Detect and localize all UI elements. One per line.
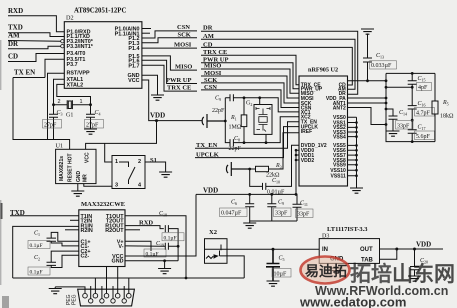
wire R2OUT stub: [125, 229, 140, 231]
wire network bottom rail: [386, 125, 435, 142]
value label 0.033uF: [370, 61, 397, 69]
node ANT2 rail: [385, 123, 388, 126]
svg-text:PEG: PEG: [72, 294, 78, 305]
wire TAB tie: [380, 249, 397, 259]
ground under C4: [84, 129, 97, 134]
wire P1.1/AIN1 stub: [142, 32, 150, 34]
node VDD rail C6: [248, 193, 251, 196]
capacitor C9 crystal: [225, 94, 244, 101]
wire DB9 ground line: [55, 267, 129, 294]
svg-text:VDD: VDD: [150, 112, 165, 120]
connector X2 internals: [205, 245, 228, 259]
crystal G1: [67, 100, 72, 109]
wire P1.7 to TRX_CE: [142, 65, 197, 91]
svg-text:27pF: 27pF: [44, 122, 57, 128]
wire junction down to GND line: [177, 246, 179, 260]
wire network top rail: [386, 72, 435, 74]
capacitor C3: [49, 105, 58, 140]
capacitor C17: [408, 120, 417, 141]
value label 10uF: [272, 269, 291, 278]
wire DB9 lower pin stubs: [91, 286, 125, 299]
node C16 C17: [411, 119, 414, 122]
capacitor C8 crystal: [230, 139, 266, 146]
svg-text:拓培: 拓培: [350, 262, 392, 286]
value label 33pF: [274, 208, 292, 217]
svg-text:MOSI: MOSI: [174, 42, 192, 49]
svg-text:VDD2: VDD2: [301, 158, 315, 164]
wire crystal top line: [244, 98, 299, 112]
svg-text:P3.3/INT1*: P3.3/INT1*: [67, 44, 94, 50]
wire D3 OUT to VDD: [380, 248, 444, 250]
svg-text:X2: X2: [209, 229, 217, 236]
node crystal left: [52, 103, 55, 106]
svg-text:易迪拓: 易迪拓: [305, 263, 347, 279]
svg-text:PWR UP: PWR UP: [166, 77, 191, 84]
ground at DB9: [54, 287, 56, 289]
value label 0.1uF: [28, 267, 50, 275]
node crystal ground rail: [224, 120, 227, 123]
wire CD to P3.4: [8, 54, 64, 62]
wire reset line to U1: [48, 140, 70, 150]
wire V+ stub: [125, 241, 151, 251]
svg-text:SCK: SCK: [178, 31, 191, 38]
node GND ground: [163, 259, 166, 262]
svg-text:C9: C9: [215, 96, 221, 103]
svg-text:OUT: OUT: [360, 247, 373, 253]
svg-text:MAX6821s: MAX6821s: [59, 156, 65, 181]
wire UPCLK from U2: [195, 127, 299, 158]
wire DR to P3.3: [8, 46, 61, 49]
wire X2 lower pin: [227, 256, 244, 278]
svg-text:MISO: MISO: [175, 64, 192, 71]
wire P1.3 to SCK: [142, 38, 197, 43]
svg-text:P3.7: P3.7: [67, 62, 78, 68]
node VDD1: [295, 154, 298, 157]
svg-text:AM: AM: [8, 32, 20, 40]
wire T1OUT to DB9: [125, 216, 186, 278]
wire U1 MR to S1 pin3: [84, 184, 112, 187]
wire TXD to T1IN: [10, 215, 79, 217]
svg-text:4.7pF: 4.7pF: [416, 111, 431, 117]
svg-text:R5: R5: [442, 100, 449, 107]
node C5: [272, 248, 275, 251]
wire C15 C16 link to rail: [386, 86, 412, 88]
resistor R1: [243, 98, 245, 143]
polarized capacitor near XC1: [202, 114, 225, 128]
svg-text:10µF: 10µF: [274, 272, 287, 278]
svg-text:0.033µF: 0.033µF: [371, 63, 392, 69]
svg-text:C2: C2: [34, 255, 40, 262]
node VDD rail riser: [295, 193, 298, 196]
node R1 bottom: [243, 141, 246, 144]
wire CD to U2: [201, 47, 352, 85]
wire MISO to U2: [201, 69, 299, 93]
wire D2 GND to ground: [142, 75, 158, 95]
node rail top: [385, 79, 388, 82]
svg-text:DR: DR: [203, 25, 213, 32]
node crystal right: [89, 103, 92, 106]
svg-text:C6: C6: [231, 200, 237, 207]
svg-text:33pF: 33pF: [275, 211, 288, 217]
svg-text:www.edatop.com: www.edatop.com: [299, 295, 406, 308]
svg-text:C10: C10: [272, 178, 280, 185]
ground under C5: [267, 281, 280, 286]
svg-text:C1: C1: [34, 231, 40, 238]
wire X2 to D3 IN: [221, 248, 319, 250]
svg-text:33pF: 33pF: [297, 212, 310, 218]
wire VDD node right to cap: [157, 120, 203, 122]
node C13: [366, 79, 369, 82]
wire DB9 bus: [13, 277, 245, 279]
svg-text:C18: C18: [159, 211, 167, 218]
wire ANT1 to rail: [348, 102, 387, 104]
node G2 top: [258, 96, 261, 99]
capacitor C2: [47, 251, 79, 267]
wire VDD rail: [196, 194, 297, 204]
svg-text:P1.7: P1.7: [128, 63, 139, 69]
wire U1 VCC up to VDD rail: [86, 143, 157, 162]
value label 5.6pF: [415, 131, 435, 140]
wire R1OUT RXD: [125, 226, 164, 229]
svg-text:XTAL2: XTAL2: [67, 82, 84, 88]
svg-text:C5: C5: [279, 256, 285, 263]
wire antenna rail: [385, 73, 387, 141]
value label 27pF: [85, 120, 104, 129]
svg-text:0.1µF: 0.1µF: [164, 235, 177, 241]
wire P1.6 to PWR_UP: [142, 60, 197, 83]
svg-text:RST/VPP: RST/VPP: [67, 71, 90, 77]
svg-text:RXD: RXD: [139, 219, 153, 226]
svg-text:C16: C16: [418, 101, 426, 108]
node C17 bottom: [411, 140, 414, 143]
wire VSS bus: [348, 117, 357, 188]
value label 33pF: [296, 209, 314, 218]
capacitor C5 electrolytic: [266, 249, 280, 281]
node C20: [413, 248, 416, 251]
svg-text:VDD: VDD: [203, 187, 218, 195]
wire XTAL1: [54, 79, 65, 104]
node R1 top: [243, 96, 246, 99]
value label 33pF: [396, 121, 414, 130]
svg-text:22pF: 22pF: [229, 146, 242, 152]
ground above C13: [361, 29, 374, 34]
svg-text:CSN: CSN: [177, 24, 190, 31]
svg-text:G2: G2: [246, 101, 252, 108]
value label 0.1uF: [144, 249, 166, 257]
wire P1.0/AIN0 stub: [142, 28, 151, 30]
node T1OUT bus: [185, 277, 188, 280]
pin bubble P3.2: [61, 40, 64, 43]
svg-text:MAX3232CWE: MAX3232CWE: [81, 201, 125, 208]
capacitor C20: [410, 249, 419, 276]
wire IREF cap to C10: [250, 169, 263, 186]
capacitor C6: [245, 194, 254, 221]
svg-text:18kΩ: 18kΩ: [440, 114, 454, 120]
svg-text:S1: S1: [150, 157, 157, 164]
value label 0.1uF: [28, 241, 50, 249]
wire U1 GND down: [77, 184, 79, 191]
svg-text:TXD: TXD: [8, 24, 23, 32]
wire VDD0-2 pins to riser: [296, 150, 299, 194]
resistor R5: [434, 73, 436, 141]
svg-text:C11: C11: [300, 201, 308, 208]
svg-text:R3: R3: [275, 163, 282, 170]
svg-text:CD: CD: [8, 53, 18, 61]
wire GND to ground: [125, 261, 178, 269]
svg-text:27pF: 27pF: [86, 122, 99, 128]
svg-text:G1: G1: [66, 113, 73, 119]
wire P1.4 to MOSI: [142, 47, 197, 49]
svg-text:3: 3: [115, 183, 118, 189]
svg-text:R1: R1: [230, 115, 237, 122]
svg-text:MR: MR: [83, 174, 89, 182]
wire TXD to P1.1: [8, 33, 64, 37]
switch S1 internals: [119, 162, 135, 184]
svg-text:LT1117IST-3.3: LT1117IST-3.3: [327, 226, 368, 233]
wire T2IN stub: [70, 219, 79, 221]
wire PWR_UP to U2: [201, 63, 299, 89]
svg-text:TX EN: TX EN: [14, 69, 35, 77]
capacitor C18: [165, 225, 178, 246]
wire XTAL2: [57, 84, 91, 104]
svg-text:C4: C4: [95, 110, 101, 117]
wire RXD to P1.0: [8, 16, 64, 32]
node OUT TAB: [395, 248, 398, 251]
capacitor C10: [263, 145, 300, 190]
svg-text:22pF: 22pF: [212, 108, 225, 114]
polarized capacitor near IREF: [226, 162, 249, 176]
wire D2 VCC to VDD node: [142, 80, 157, 121]
svg-text:1: 1: [80, 99, 83, 105]
crystal G2 internals: [256, 107, 270, 132]
wire crystal line: [54, 104, 91, 106]
nodes VSS bus: [355, 121, 358, 177]
svg-text:IREF: IREF: [301, 129, 312, 135]
wire D3 GND to ground: [335, 263, 337, 268]
svg-text:R2OUT: R2OUT: [105, 228, 124, 234]
wire DR to U2: [201, 31, 358, 94]
resistor R3: [256, 166, 269, 171]
node VDD0: [295, 149, 298, 152]
svg-text:C3: C3: [57, 110, 63, 117]
svg-text:V-: V-: [118, 244, 123, 250]
IC D2 AT89C2051-12PC: [64, 22, 142, 89]
capacitor C1: [47, 232, 79, 246]
wire VDD_PA to rail: [348, 97, 387, 99]
svg-text:GND: GND: [76, 171, 82, 183]
svg-text:RESET HOT: RESET HOT: [68, 153, 74, 182]
svg-text:5.6pF: 5.6pF: [416, 134, 431, 140]
svg-text:0.1µF: 0.1µF: [30, 270, 43, 276]
ground under C14: [387, 131, 400, 136]
capacitor C11: [293, 204, 302, 221]
wire CSN to U2: [201, 90, 299, 108]
svg-text:1: 1: [115, 159, 118, 165]
svg-text:GND: GND: [112, 259, 124, 265]
svg-text:山东网: 山东网: [392, 262, 455, 286]
node VDD: [155, 119, 158, 122]
capacitor C4: [86, 105, 95, 127]
capacitor C13: [363, 34, 372, 81]
svg-text:AT89C2051-12PC: AT89C2051-12PC: [74, 8, 126, 15]
wire VDD node down to U1 rail: [156, 121, 158, 144]
ground under D2: [151, 95, 164, 100]
capacitor C7: [267, 194, 276, 221]
svg-text:C8: C8: [234, 136, 240, 143]
svg-text:C13: C13: [376, 53, 384, 60]
svg-text:VCC: VCC: [85, 152, 91, 163]
svg-text:U1: U1: [56, 143, 64, 150]
svg-text:IN: IN: [322, 247, 328, 253]
wire decoupling ground bus: [250, 220, 297, 222]
value label 27pF: [43, 120, 62, 129]
value label 4.7pF: [415, 108, 435, 117]
wire P1.5 to MISO: [142, 56, 197, 70]
wire P1.2 to CSN: [142, 31, 197, 38]
capacitor C16: [408, 87, 417, 120]
wire TX_EN to P3.5 and down to U1: [13, 59, 64, 139]
svg-text:C14: C14: [399, 110, 407, 117]
wire SCK to U2: [201, 83, 299, 103]
watermark: [299, 257, 455, 308]
svg-text:0.1µF: 0.1µF: [30, 243, 43, 249]
svg-text:33pF: 33pF: [397, 124, 410, 130]
node C18 C19 junction: [177, 245, 180, 248]
connector J1 DB9: [78, 289, 135, 306]
svg-text:C2-: C2-: [81, 253, 90, 259]
value label 4pF: [417, 83, 432, 91]
node ANT1 rail: [385, 102, 388, 105]
svg-text:0.1µF: 0.1µF: [146, 252, 159, 258]
ground at MAX3232: [158, 269, 171, 274]
wire TRX_CE to U2: [201, 55, 299, 84]
svg-text:1MΩ: 1MΩ: [229, 125, 242, 131]
node VDD_PA rail: [385, 97, 388, 100]
capacitor C14: [386, 109, 398, 131]
ground under U1: [71, 191, 84, 196]
svg-text:C19: C19: [156, 241, 164, 248]
svg-text:nRF905 U2: nRF905 U2: [308, 67, 338, 74]
svg-text:P1.4: P1.4: [128, 46, 139, 52]
wire MOSI to U2: [201, 76, 299, 98]
node G2 bottom: [265, 141, 268, 144]
svg-text:RXD: RXD: [8, 7, 23, 15]
switch S1: [112, 156, 145, 189]
svg-text:4pF: 4pF: [418, 85, 428, 91]
ground at S1: [159, 172, 172, 177]
capacitor C19: [125, 243, 178, 250]
wire VCC to VDD rail riser: [125, 194, 196, 256]
ground decoupling: [249, 221, 251, 223]
scan edge artifacts: [0, 40, 2, 285]
svg-text:C15: C15: [418, 76, 426, 83]
wire crystal ground rail: [225, 98, 230, 143]
svg-text:VDD: VDD: [416, 241, 431, 249]
value label 0.047uF: [220, 208, 248, 217]
wire RST/VPP: [48, 73, 65, 139]
svg-text:C9: C9: [278, 200, 284, 207]
wire VCC pin to rail: [348, 80, 387, 82]
wire ANT2 jog to rail: [348, 108, 387, 125]
wire AM to P3.2: [8, 40, 61, 43]
svg-text:VSS4: VSS4: [333, 134, 346, 140]
pin bubble P3.3: [61, 45, 64, 48]
ground VSS: [350, 188, 363, 193]
svg-text:TRX CE: TRX CE: [167, 84, 191, 91]
node VDD rail C7: [270, 193, 273, 196]
svg-text:2: 2: [58, 99, 61, 105]
svg-text:C17: C17: [418, 125, 426, 132]
svg-text:VCC: VCC: [128, 78, 139, 84]
wire AM to U2: [201, 39, 355, 89]
ground under C20: [408, 276, 421, 281]
wire crystal bottom to XC2: [266, 117, 299, 143]
svg-text:DR: DR: [8, 40, 19, 48]
wire R1IN from DB9: [13, 226, 79, 278]
svg-text:2: 2: [138, 159, 141, 165]
capacitor C15: [408, 73, 417, 87]
svg-text:ANT2: ANT2: [333, 105, 346, 111]
node R3 left: [248, 168, 251, 171]
svg-text:D2: D2: [66, 15, 74, 22]
value label 0.1uF: [162, 233, 184, 241]
svg-text:VSS11: VSS11: [331, 174, 347, 180]
wire R2IN stub: [65, 229, 79, 231]
node VDD2: [295, 159, 298, 162]
svg-text:0.047µF: 0.047µF: [221, 211, 242, 217]
wire S1 pin2 to ground: [145, 162, 166, 172]
svg-text:R2IN: R2IN: [81, 228, 93, 234]
wire TX_EN from U2: [195, 122, 299, 149]
